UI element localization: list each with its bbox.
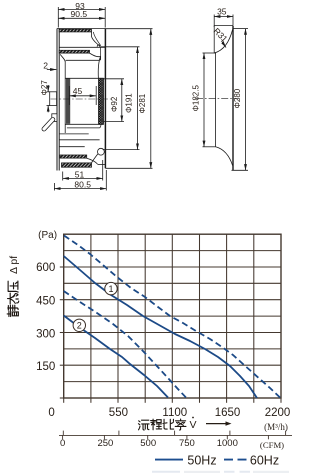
svg-text:Φ27: Φ27 [40, 80, 49, 96]
svg-text:(M³/h): (M³/h) [264, 422, 288, 432]
svg-text:Φ281: Φ281 [138, 93, 147, 113]
svg-text:600: 600 [36, 262, 55, 274]
svg-text:150: 150 [36, 361, 55, 373]
svg-text:(CFM): (CFM) [260, 440, 284, 450]
svg-text:(Pa): (Pa) [38, 230, 57, 241]
svg-text:90.5: 90.5 [71, 9, 88, 19]
svg-text:1650: 1650 [215, 407, 241, 419]
svg-text:51: 51 [75, 169, 85, 179]
svg-text:50Hz: 50Hz [187, 453, 216, 467]
svg-text:0: 0 [48, 407, 54, 419]
svg-text:Φ280: Φ280 [233, 88, 242, 108]
svg-text:0: 0 [60, 438, 65, 449]
svg-text:550: 550 [109, 407, 128, 419]
svg-text:Δ pf: Δ pf [8, 256, 20, 274]
svg-text:2: 2 [77, 321, 82, 331]
svg-text:500: 500 [140, 438, 156, 449]
svg-text:2200: 2200 [265, 407, 291, 419]
svg-text:Φ182.5: Φ182.5 [192, 85, 201, 112]
svg-text:750: 750 [179, 438, 195, 449]
svg-text:45: 45 [73, 86, 83, 96]
svg-text:Φ92: Φ92 [110, 96, 119, 112]
svg-text:2: 2 [43, 61, 48, 71]
svg-text:1: 1 [108, 284, 113, 294]
svg-text:300: 300 [36, 329, 55, 341]
svg-text:V: V [189, 419, 196, 431]
svg-text:60Hz: 60Hz [250, 454, 279, 468]
svg-text:80.5: 80.5 [74, 180, 91, 190]
svg-text:35: 35 [217, 7, 227, 17]
svg-text:Φ191: Φ191 [125, 93, 134, 113]
svg-text:450: 450 [36, 296, 55, 308]
svg-text:1100: 1100 [162, 407, 187, 419]
svg-text:1000: 1000 [217, 438, 238, 449]
svg-text:250: 250 [97, 438, 113, 449]
